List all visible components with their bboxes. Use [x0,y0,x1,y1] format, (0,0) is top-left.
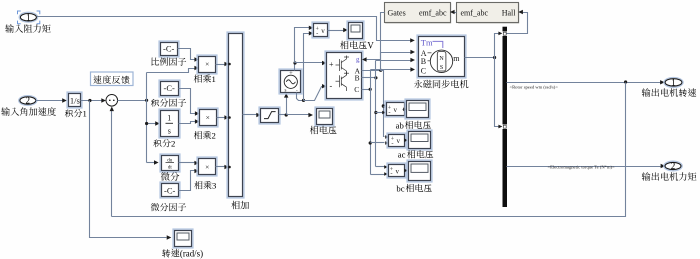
arrowhead into saturation [256,113,261,117]
arrowhead voltmeter in+ [309,26,314,30]
arrowhead add in1 [224,62,229,66]
scope block ac [407,130,432,150]
svg-text:+: + [329,60,334,69]
PMSM motor block [417,35,466,78]
label 积分2 [153,139,175,149]
wire AC+ to bridge + [295,62,323,64]
saturation block [259,107,280,124]
arrowhead into Hall input [518,10,523,14]
svg-text:-C-: -C- [164,83,176,93]
scope block 相电压 [315,107,334,126]
wire m down to bus selector input2 [495,58,499,127]
svg-text:2: 2 [671,161,676,171]
arrowhead ab voltmeter in+ (A) [382,104,386,108]
wire AC- up to voltmeter - [304,34,310,101]
wire m up to bus selector input1 [495,34,499,58]
svg-text:emf_abc: emf_abc [461,9,489,18]
arrowhead into decoder1 emf_abc input [450,10,455,14]
arrowhead product1 in2 [194,66,199,70]
junction m node [493,56,496,59]
wire AC- to bridge - [304,87,323,101]
universal bridge (IGBT inverter) [325,51,363,100]
arrowhead up into sum circle [110,107,114,112]
svg-text:3: 3 [212,181,216,191]
arrowhead into scope 相电压V [343,28,348,32]
svg-text:<Electromagnetic torque Te (N*: <Electromagnetic torque Te (N*m)> [548,164,616,169]
wire Gates output to bridge g [367,13,385,60]
svg-text:V: V [367,41,374,51]
wire AC+ up to voltmeter + [295,28,310,63]
outport 2 (输出电机力矩) [664,161,682,171]
wire bridge B output [362,77,376,79]
svg-text:g: g [356,56,360,64]
arrowhead g input (points left) [362,57,367,61]
junction A tap ab [382,104,385,107]
derivative block 微分 (du/dt) [160,154,180,172]
svg-text:×: × [205,60,209,69]
product block 相乘2 [198,108,218,127]
arrowhead product3 in1 [194,161,199,165]
junction C tap ac [369,141,372,144]
wire 积分因子 to product2 [179,89,196,114]
AC controlled voltage source [279,69,302,94]
svg-text:dt: dt [168,165,173,170]
outport 1 (输出电机转速) [664,78,683,88]
label ab相电压 [396,120,432,130]
arrowhead into integrator2 [155,121,160,125]
svg-text:2: 2 [171,139,175,149]
label 相乘3 [194,181,216,191]
wire B vertical [375,61,377,167]
svg-text:C: C [354,85,359,94]
scope block bc [407,160,432,182]
arrowhead into bridge + [322,61,327,65]
arrowhead into sum circle [101,98,106,102]
arrowhead ac voltmeter in+ (A) [385,135,389,139]
arrowhead into motor C [410,67,415,71]
arrowhead add in2 [224,115,229,119]
wire C tap to bc- [371,174,385,176]
wire bus to Hall input [507,13,528,34]
wire saturation out [279,114,287,116]
svg-text:emf_abc: emf_abc [419,9,447,18]
wire product3 to add [216,166,225,168]
junction after integrator1 [88,99,91,102]
svg-text:-C-: -C- [163,44,175,54]
svg-text:-: - [316,30,318,37]
wire bridge C output [362,89,371,91]
wire bus to product1 in2 [147,69,195,73]
bus bar gap port2 [502,124,507,129]
label 永磁同步电机 [414,80,469,88]
arrowhead into outport2 [661,164,666,168]
wire product1 to add [216,64,225,66]
label 微分 [161,172,179,181]
label 转速(rad/s) [162,249,203,259]
arrowhead into motor B [410,58,415,62]
wire AC- terminal down [297,93,304,101]
product block 相乘1 [197,55,217,74]
arrowhead into motor Tm [410,38,415,42]
svg-text:×: × [205,163,209,172]
svg-text:s: s [168,127,171,136]
label 输入角加速度 [1,107,56,116]
wire derivative to product3 [179,162,195,164]
arrowhead bc voltmeter in- (C) [384,172,388,176]
arrowhead into motor A [410,50,415,54]
junction bridge C [369,88,372,91]
label 相电压 [310,126,337,134]
label 相加 [231,201,249,209]
svg-text:ab: ab [396,120,405,130]
decoder block (Gates / emf_abc) [385,3,451,23]
junction B tap ab [374,111,377,114]
wire C to motor C [371,69,411,71]
wire inport1 to motor Tm [37,17,411,41]
svg-text:v: v [321,27,325,35]
svg-text:v: v [395,167,399,175]
svg-text:Tm: Tm [421,37,433,47]
label 比例因子 [151,57,186,65]
wire C tap to ac- [371,142,385,144]
motor Tm purple wire deco [433,41,443,48]
svg-text:S: S [440,65,443,71]
inport 1 (输入阻力矩) [19,12,37,22]
label 输出电机转速 [642,88,697,97]
svg-text:Gates: Gates [388,9,406,18]
arrowhead into derivative [154,160,159,164]
wire bus to derivative [147,162,155,164]
svg-text:-: - [391,140,393,147]
bus selector bar [503,27,508,207]
svg-text:1/s: 1/s [70,96,80,106]
wire integrator1 to sum circle [81,100,103,102]
wire branch down to speed scope [90,101,167,238]
arrowhead ac voltmeter in- (C) [385,141,389,145]
label 积分1 [65,109,87,119]
decoder2 block (emf_abc / Hall) [458,3,519,23]
arrowhead bc voltmeter in+ (B) [384,165,388,169]
svg-text:B: B [421,57,426,66]
junction AC- node [302,99,305,102]
junction bus integrator2 [145,122,148,125]
wire motor m to bus node [465,57,495,59]
wire A tap down [381,71,385,137]
add block 相加 [227,32,244,198]
wire to scope 相电压 [287,114,309,116]
label 相电压V [340,41,374,51]
feedback wire speed to sum circle [112,83,626,217]
wire ac voltmeter to scope [404,138,408,142]
svg-text:(rad/s): (rad/s) [180,249,203,259]
arrowhead up into AC source [284,93,288,98]
junction saturation out [285,113,288,116]
integrator block 积分1 (1/s) [67,92,82,108]
wire 比例因子 to product1 [178,49,195,60]
wire integrator2 to product2 [179,122,196,124]
scope block ab [405,99,430,119]
scope block 转速 [173,229,193,248]
arrowhead voltmeter in- [309,31,314,35]
arrowhead into speed scope [167,235,172,239]
PID bus vertical [146,73,148,163]
wire 微分因子 to product3 [179,171,195,191]
wire bc voltmeter to scope [404,169,408,173]
wire product2 to add [217,117,225,119]
ac voltage measurement +v [387,133,406,148]
junction bridge A [379,69,382,72]
label ac相电压 [398,150,434,160]
label bc相电压 [396,183,432,193]
junction bridge B [374,76,377,79]
arrowhead product2 in1 [195,111,200,115]
arrowhead into outport1 [660,80,665,84]
feedback wire up into sum circle [111,109,113,217]
wire decoder2 to decoder1 [455,12,457,14]
svg-text:-: - [330,82,333,91]
wire torque to outport2 [507,166,661,168]
junction speed feedback tap [624,80,627,83]
svg-text:2: 2 [212,131,216,141]
wire bus to integrator2 [147,123,156,125]
scope block 相电压V [347,21,364,40]
wire voltmeter to scope 相电压V [328,30,344,32]
label 微分因子 [151,203,186,211]
svg-text:<Rotor speed wm (rad/s)>: <Rotor speed wm (rad/s)> [510,85,559,90]
label 输出电机力矩 [642,172,697,181]
wire AC+ terminal up [294,63,296,71]
wire C vertical [370,70,372,175]
label 积分因子 [151,98,186,106]
svg-text:1: 1 [212,74,216,84]
wire ab voltmeter to scope [403,109,405,111]
svg-text:m: m [453,54,460,63]
svg-text:1: 1 [671,78,676,88]
wire B tap to ab- [376,112,385,114]
wire A up to motor A [381,53,411,71]
constant -C- 比例因子 [159,41,179,57]
junction at PID bus [145,99,148,102]
svg-text:1: 1 [83,109,87,119]
wire B to motor B [376,60,411,62]
arrowhead product3 in2 [194,169,199,173]
svg-text:-: - [388,109,390,116]
bus bar gap port1 [502,31,507,36]
wire inport2 to integrator1 [36,100,63,102]
svg-text:Hall: Hall [502,9,517,18]
wire A tap to ab+ [384,106,385,108]
wire add to saturation [243,114,257,116]
svg-text:-C-: -C- [164,185,176,195]
svg-text:v: v [396,137,400,145]
label 输入阻力矩 [5,24,51,33]
svg-text:1: 1 [26,12,31,22]
annotation box 速度反馈 [91,72,134,86]
wire to AC source control [286,98,288,115]
label 相乘2 [194,131,216,141]
wire bridge A output [362,70,381,72]
arrowhead into bridge - [322,84,327,88]
arrowhead ab voltmeter in- (B) [382,111,386,115]
ab voltage measurement +v [385,101,406,117]
arrowhead product2 in2 [195,119,200,123]
svg-text:B: B [355,74,360,83]
svg-text:2: 2 [26,96,31,106]
svg-text:ac: ac [398,150,406,160]
bc voltage measurement +v [387,163,406,178]
inport 2 (输入角加速度) [19,96,37,106]
svg-text:N: N [439,56,444,62]
svg-text:×: × [206,113,210,122]
svg-text:+: + [289,70,293,77]
arrowhead bus input2 [498,125,502,129]
wire rotor speed to outport1 [507,82,661,84]
product block 相乘3 [197,157,217,176]
svg-text:v: v [393,106,397,114]
arrowhead product1 in1 [194,57,199,61]
sum circle (speed feedback) [106,95,118,107]
label 相乘1 [194,74,216,84]
arrowhead bus input1 [498,32,502,36]
arrowhead add in3 [224,165,229,169]
constant -C- 积分因子 [159,80,180,97]
svg-text:bc: bc [396,183,404,193]
svg-text:C: C [421,66,426,75]
wire B tap to bc+ [376,166,385,168]
voltage measurement +v (DC) [312,22,329,38]
arrowhead into integrator1 [62,98,67,102]
arrowhead into scope 相电压 [308,113,313,117]
selection brackets around inport 1 [18,11,40,24]
svg-text:1: 1 [167,114,171,123]
integrator block 积分2 (1/s) [159,109,180,138]
constant -C- 微分因子 [160,182,180,198]
wire sum circle to PID bus [118,100,147,102]
svg-text:-: - [390,171,392,178]
junction AC+ node [293,61,296,64]
svg-text:s: s [285,89,287,94]
